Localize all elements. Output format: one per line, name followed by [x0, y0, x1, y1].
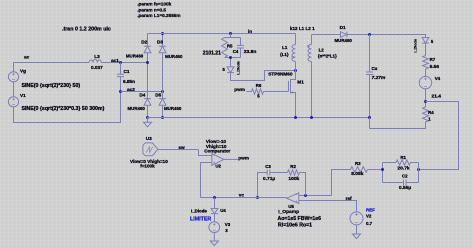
wire: [120, 63, 122, 75]
svg-text:Comparator: Comparator: [204, 148, 230, 153]
wire: [370, 118, 426, 129]
wire: [368, 169, 383, 171]
junction: [161, 32, 164, 35]
capacitor C3: [267, 170, 270, 176]
svg-text:U4: U4: [220, 208, 226, 213]
svg-text:sw: sw: [178, 145, 185, 150]
svg-text:23.8n: 23.8n: [244, 49, 257, 55]
sawtooth source U3: [143, 143, 158, 156]
ground: [213, 233, 215, 241]
comparator U2: [212, 154, 224, 166]
junction: [161, 116, 164, 119]
wire: [425, 43, 427, 55]
wire: [369, 75, 371, 118]
svg-text:D1: D1: [340, 25, 346, 30]
svg-text:.param n=0.5: .param n=0.5: [137, 7, 166, 12]
svg-text:LIMITER: LIMITER: [190, 217, 211, 223]
svg-text:.tran 0 1.2 200m uic: .tran 0 1.2 200m uic: [62, 27, 111, 33]
wire: [425, 69, 427, 76]
wire: [214, 214, 216, 222]
ground: [356, 225, 358, 234]
junction: [368, 116, 371, 119]
wire: [13, 82, 15, 97]
junction: [229, 56, 232, 59]
svg-text:U5: U5: [288, 204, 294, 209]
diode D3: [159, 46, 166, 53]
svg-text:.param fs=100k: .param fs=100k: [137, 2, 171, 7]
wire: [419, 102, 459, 170]
svg-text:20.7k: 20.7k: [397, 166, 410, 172]
diode D1: [341, 32, 348, 38]
diode D2: [144, 46, 151, 53]
svg-text:100k: 100k: [288, 176, 299, 182]
wire: [201, 197, 287, 199]
wire: [347, 35, 426, 38]
wire: [147, 105, 149, 117]
svg-text:V4: V4: [435, 76, 441, 81]
capacitor C1: [117, 74, 124, 76]
svg-text:MUR460: MUR460: [164, 106, 182, 111]
svg-text:C4: C4: [233, 49, 239, 54]
junction: [229, 32, 232, 35]
wire: [162, 34, 164, 47]
svg-text:{L1}: {L1}: [280, 52, 289, 57]
wire: [300, 173, 306, 196]
svg-text:STP8NM60: STP8NM60: [268, 72, 293, 77]
wire: [295, 34, 297, 45]
svg-text:R1: R1: [400, 155, 406, 160]
svg-text:f=100k: f=100k: [140, 164, 155, 169]
wire: [158, 149, 199, 151]
svg-text:pwm: pwm: [234, 87, 245, 92]
junction: [368, 33, 371, 36]
svg-text:.param L1=0.2555m: .param L1=0.2555m: [137, 13, 180, 18]
wire: [369, 35, 371, 73]
svg-text:R5: R5: [227, 43, 233, 48]
svg-text:C3: C3: [265, 164, 271, 169]
svg-text:MUR460: MUR460: [128, 106, 146, 111]
svg-text:0.037: 0.037: [91, 65, 103, 70]
wire: [199, 150, 212, 156]
svg-text:SINE(0 {sqrt(2)*230} 50): SINE(0 {sqrt(2)*230} 50): [22, 83, 81, 89]
transistor M1: [291, 71, 296, 80]
svg-text:6.85n: 6.85n: [123, 79, 135, 84]
svg-text:REF: REF: [366, 208, 375, 213]
svg-text:pwm: pwm: [238, 156, 249, 161]
inductor L1: [292, 45, 295, 62]
junction: [119, 61, 122, 64]
voltage source V4: [419, 76, 431, 88]
junction: [119, 90, 122, 93]
capacitor C4: [240, 38, 242, 58]
junction: [294, 116, 297, 119]
svg-text:MUR460: MUR460: [126, 54, 144, 59]
voltage source V2: [350, 212, 363, 225]
svg-text:R6: R6: [256, 83, 262, 88]
svg-text:L1: L1: [282, 45, 288, 50]
wire: [120, 77, 122, 92]
svg-text:2101.21: 2101.21: [203, 51, 221, 57]
wire: [147, 53, 149, 99]
resistor R3: [351, 167, 368, 173]
wire: [299, 195, 332, 197]
capacitor Cu: [366, 72, 373, 75]
wire: [225, 34, 241, 67]
svg-text:R3: R3: [355, 161, 361, 166]
wire: [247, 91, 252, 93]
svg-text:C2: C2: [402, 173, 408, 178]
junction: [417, 168, 420, 171]
voltage source V1: [8, 97, 18, 107]
svg-text:ac1: ac1: [111, 58, 119, 63]
wire: [312, 34, 341, 36]
svg-text:R7: R7: [430, 57, 436, 62]
svg-text:Cu: Cu: [372, 66, 378, 71]
svg-text:U3: U3: [146, 136, 152, 141]
svg-text:R4: R4: [428, 110, 434, 115]
svg-text:D5: D5: [155, 93, 161, 98]
diode U4: [211, 209, 218, 214]
svg-text:L3: L3: [94, 54, 100, 59]
wire: [13, 63, 15, 72]
wire: [299, 201, 357, 212]
svg-text:Ri=10e6 Ro=1: Ri=10e6 Ro=1: [278, 222, 312, 228]
svg-text:ac: ac: [24, 55, 30, 60]
resistor R7: [423, 56, 429, 70]
svg-text:SINE(0 {sqrt(2)*230*0.3} 50 30: SINE(0 {sqrt(2)*230*0.3} 50 300m): [22, 106, 105, 112]
svg-text:0.55µ: 0.55µ: [399, 185, 412, 191]
wire: [148, 117, 370, 119]
svg-text:k12 L1 L2 1: k12 L1 L2 1: [290, 26, 315, 31]
wire: [425, 89, 427, 107]
wire: [147, 34, 149, 47]
svg-text:7.27m: 7.27m: [372, 75, 387, 81]
svg-text:vc: vc: [239, 193, 245, 198]
wire: [224, 158, 238, 160]
svg-text:U2: U2: [215, 163, 221, 168]
svg-text:D2: D2: [141, 40, 147, 45]
junction: [213, 196, 216, 199]
svg-text:V2: V2: [366, 213, 372, 218]
svg-text:R2: R2: [290, 164, 296, 169]
wire: [264, 91, 289, 93]
ground: [147, 118, 149, 123]
resistor R4: [423, 107, 429, 122]
svg-text:I_Diode: I_Diode: [237, 61, 241, 75]
svg-text:M1: M1: [297, 79, 304, 84]
wire: [214, 198, 216, 209]
svg-text:Vg: Vg: [20, 68, 26, 73]
svg-text:D3: D3: [157, 40, 163, 45]
op-amp U5: [287, 193, 299, 204]
wire: [201, 163, 212, 198]
junction: [146, 116, 149, 119]
wire: [121, 91, 163, 93]
svg-text:0.71µ: 0.71µ: [263, 176, 276, 182]
resistor R5: [222, 38, 228, 58]
svg-text:I_Diode: I_Diode: [414, 39, 418, 53]
svg-text:Ao=1e5 FBW=1e6: Ao=1e5 FBW=1e6: [278, 216, 322, 222]
junction: [381, 168, 384, 171]
svg-text:5.56: 5.56: [430, 64, 440, 70]
svg-text:D4: D4: [139, 93, 145, 98]
junction: [256, 196, 259, 199]
wire: [101, 62, 147, 64]
wire: [14, 92, 121, 123]
svg-text:I_Diode: I_Diode: [191, 209, 207, 214]
svg-text:L2: L2: [319, 47, 325, 52]
inductor L3: [89, 59, 101, 62]
capacitor C2: [383, 182, 419, 184]
svg-text:V1: V1: [20, 93, 26, 98]
junction: [146, 61, 149, 64]
resistor R6: [252, 89, 264, 94]
svg-text:C1: C1: [124, 69, 130, 74]
wire: [311, 62, 313, 118]
svg-text:MUR460: MUR460: [335, 38, 353, 43]
svg-text:MUR460: MUR460: [165, 54, 183, 59]
svg-text:I_Opamp: I_Opamp: [278, 209, 299, 215]
svg-text:21.4: 21.4: [432, 94, 442, 100]
wire: [162, 53, 164, 99]
voltage source V3: [209, 222, 220, 233]
wire: [148, 33, 296, 35]
junction: [310, 116, 313, 119]
junction: [424, 100, 427, 103]
diode U6: [422, 38, 429, 44]
junction: [304, 194, 307, 197]
diode D4: [144, 99, 151, 106]
resistor R2: [288, 170, 300, 175]
wire: [270, 172, 288, 174]
svg-text:V3: V3: [225, 222, 231, 227]
junction: [161, 90, 164, 93]
wire: [295, 62, 297, 71]
resistor R1: [383, 163, 419, 183]
svg-text:0.7: 0.7: [366, 221, 373, 226]
wire: [258, 173, 268, 198]
wire: [311, 35, 313, 45]
diode D5: [159, 99, 166, 106]
svg-text:ref: ref: [346, 196, 352, 201]
voltage source Vg: [8, 72, 18, 82]
svg-text:{n**2*L1}: {n**2*L1}: [318, 53, 337, 58]
inductor L2: [308, 45, 311, 62]
wire: [231, 71, 296, 81]
junction: [294, 69, 297, 72]
svg-text:8.05k: 8.05k: [351, 171, 364, 177]
diode U1: [227, 67, 234, 73]
wire: [162, 105, 164, 117]
wire: [332, 170, 351, 196]
wire: [14, 62, 90, 64]
